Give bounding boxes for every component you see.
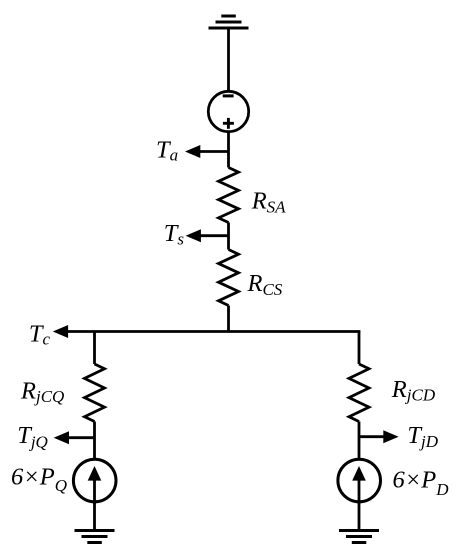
current source I_Q (circle, arrow up) <box>73 459 116 502</box>
wire: bus to R_jCQ <box>93 332 96 365</box>
resistor R_CS <box>219 250 239 306</box>
ground GND_TOP (inverted, above source) <box>209 16 249 28</box>
ground GND_LEFT <box>75 531 115 543</box>
wire: current source to ground (left) <box>93 503 96 531</box>
voltage source V1 (circle) <box>208 91 248 131</box>
wire: R_jCQ to current source <box>93 422 96 459</box>
resistor R_jCQ <box>85 364 105 422</box>
resistor R_jCD <box>349 364 369 422</box>
node Ta arrow <box>185 145 229 158</box>
node Ts arrow <box>186 229 229 242</box>
wire: R_SA to R_CS <box>227 223 230 250</box>
wire: top ground to voltage source <box>227 28 230 91</box>
resistor R_SA <box>219 168 239 223</box>
wire: bus to R_jCD <box>358 332 361 365</box>
plus sign of V1 <box>223 118 234 129</box>
wire: current source to ground (right) <box>358 503 361 531</box>
node Tc arrow <box>53 325 68 338</box>
node TjD arrow <box>359 430 399 443</box>
wire: R_CS to bus <box>227 306 230 332</box>
wire: voltage source to resistor R_SA <box>227 133 230 168</box>
ground GND_RIGHT <box>339 531 379 543</box>
minus sign of V1 <box>223 94 234 97</box>
wire: R_jCD to current source <box>358 422 361 459</box>
wire: horizontal bus node Tc <box>66 330 360 333</box>
current source I_D (circle, arrow up) <box>338 459 381 502</box>
node TjQ arrow <box>54 431 95 444</box>
